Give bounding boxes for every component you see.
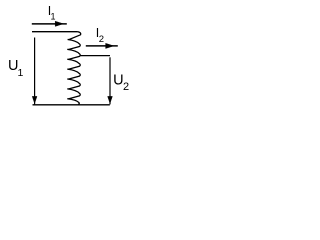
svg-text:2: 2 <box>123 81 129 93</box>
svg-text:U: U <box>113 72 123 88</box>
voltage arrow U1 <box>32 38 37 105</box>
wire (tap to right branch) <box>80 55 110 57</box>
voltage arrow U2 <box>108 57 113 104</box>
svg-text:1: 1 <box>51 11 56 21</box>
current arrow I2 <box>86 43 118 48</box>
wire (bottom) <box>33 104 110 106</box>
background <box>0 0 141 114</box>
svg-text:1: 1 <box>18 67 24 79</box>
wire (top, from input terminal to coil) <box>32 31 78 33</box>
svg-text:2: 2 <box>99 34 104 45</box>
current arrow I1 <box>32 21 67 26</box>
inductor L1 (tapped coil, autotransformer winding) <box>67 32 80 105</box>
